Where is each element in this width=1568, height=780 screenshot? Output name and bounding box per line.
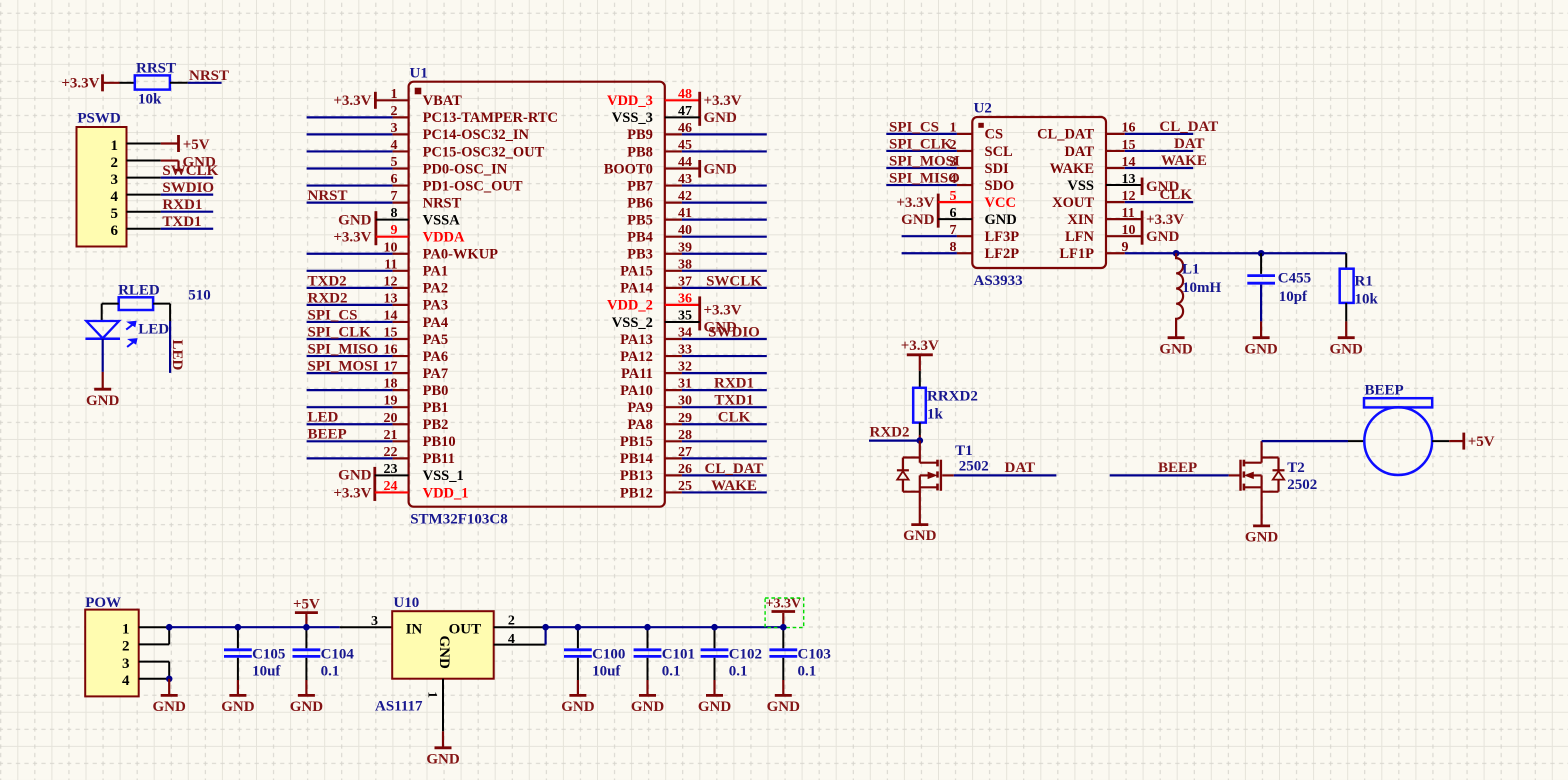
wire U1 pin 30 / net label TXD1: [665, 393, 767, 409]
svg-text:GND: GND: [1330, 341, 1364, 357]
ground (C102): [698, 680, 732, 715]
svg-text:4: 4: [111, 189, 119, 205]
svg-text:CLK: CLK: [718, 410, 751, 426]
wire U1 pin 21 / net label BEEP: [307, 427, 409, 443]
inductor L1: [1176, 253, 1221, 337]
power +5V (C104): [293, 597, 320, 628]
svg-text:SPI_MOSI: SPI_MOSI: [889, 153, 960, 169]
svg-text:LED: LED: [138, 321, 169, 337]
svg-text:RLED: RLED: [118, 282, 160, 298]
wire U1 pin 38: [665, 270, 767, 272]
ground (PSWD pin2): [161, 155, 216, 171]
svg-text:GND: GND: [1245, 530, 1279, 546]
resistor R1: [1340, 269, 1379, 322]
svg-text:DAT: DAT: [1174, 136, 1205, 152]
power +3.3V (U1 pin1 VBAT): [333, 92, 408, 109]
wire U2 pin 7: [902, 235, 973, 237]
node junction C104: [303, 624, 310, 631]
svg-text:SWDIO: SWDIO: [708, 324, 760, 340]
wire U1 pin 27: [665, 457, 767, 459]
wire U2 pin 2 / net label SPI_CLK: [886, 136, 972, 152]
svg-text:VSS_2: VSS_2: [612, 315, 653, 331]
wire RRST to NRST: [170, 82, 188, 84]
wire U2 pin 8: [902, 252, 973, 254]
svg-text:PC14-OSC32_IN: PC14-OSC32_IN: [423, 127, 530, 143]
svg-text:SPI_CS: SPI_CS: [308, 307, 358, 323]
wire net RXD2: [869, 424, 920, 440]
svg-text:10uf: 10uf: [252, 664, 281, 680]
buzzer BEEP: [1348, 382, 1449, 475]
svg-text:U1: U1: [410, 66, 428, 82]
wire LED cathode: [102, 339, 104, 372]
svg-text:IN: IN: [406, 622, 423, 638]
svg-text:POW: POW: [85, 595, 121, 611]
ground (C104): [290, 680, 324, 715]
node junction C105: [235, 624, 242, 631]
svg-text:10k: 10k: [138, 92, 162, 108]
svg-text:PA9: PA9: [627, 400, 653, 416]
ground (L1): [1159, 338, 1193, 358]
wire U1 pin 12 / net label TXD2: [307, 273, 409, 289]
svg-text:PA4: PA4: [423, 315, 449, 331]
svg-text:VBAT: VBAT: [423, 93, 463, 109]
svg-text:NRST: NRST: [308, 188, 348, 204]
svg-text:4: 4: [122, 673, 130, 689]
resistor RLED: [118, 282, 211, 310]
svg-text:2: 2: [111, 155, 119, 171]
svg-text:T1: T1: [955, 443, 973, 459]
node junction C100: [575, 624, 582, 631]
svg-text:GND: GND: [985, 212, 1017, 228]
wire U2 pin 14 / net label WAKE: [1106, 153, 1207, 169]
ground (U1 pin23 VSS_1): [338, 467, 408, 501]
svg-text:+5V: +5V: [183, 137, 210, 153]
wire U1 pin 45: [665, 150, 767, 152]
svg-text:GND: GND: [436, 636, 452, 670]
svg-text:GND: GND: [221, 699, 255, 715]
wire U1 pin 7 / net label NRST: [307, 188, 409, 204]
svg-text:+3.3V: +3.3V: [333, 93, 371, 109]
svg-text:PB3: PB3: [627, 247, 653, 263]
svg-text:PA6: PA6: [423, 349, 449, 365]
wire PSWD pin 2: [127, 160, 161, 162]
svg-text:10mH: 10mH: [1182, 280, 1221, 296]
svg-text:PB15: PB15: [620, 434, 653, 450]
op-amp U2 body (AS3933): [972, 100, 1106, 289]
svg-text:3: 3: [111, 172, 119, 188]
svg-text:C102: C102: [729, 646, 762, 662]
wire U1 pin 16 / net label SPI_MISO: [307, 341, 409, 357]
ground (U10): [426, 731, 460, 767]
svg-text:PSWD: PSWD: [77, 111, 121, 127]
svg-text:RXD1: RXD1: [162, 197, 202, 213]
svg-text:GND: GND: [704, 110, 738, 126]
svg-text:VDD_1: VDD_1: [423, 485, 469, 501]
svg-text:RXD2: RXD2: [308, 290, 348, 306]
svg-text:GND: GND: [698, 699, 732, 715]
ground (C455): [1244, 321, 1278, 357]
svg-text:PA15: PA15: [620, 264, 653, 280]
svg-text:C103: C103: [798, 646, 831, 662]
svg-text:SWCLK: SWCLK: [706, 273, 762, 289]
svg-text:NRST: NRST: [189, 68, 229, 84]
svg-text:U10: U10: [393, 595, 419, 611]
svg-text:0.1: 0.1: [798, 664, 817, 680]
power +3.3V (RRXD2): [901, 338, 939, 371]
wire U2 pin 4 / net label SPI_MISO: [886, 170, 972, 186]
svg-text:VCC: VCC: [985, 195, 1016, 211]
svg-text:+3.3V: +3.3V: [333, 485, 371, 501]
power +5V (PSWD pin1): [161, 135, 210, 153]
svg-text:VDDA: VDDA: [423, 230, 465, 246]
svg-text:GND: GND: [1159, 341, 1193, 357]
capacitor C102: [701, 627, 762, 680]
svg-text:PB6: PB6: [627, 195, 653, 211]
wire net BEEP (T2 gate): [1110, 460, 1240, 476]
svg-text:C101: C101: [662, 646, 695, 662]
wire POW pin3-4 tie: [168, 662, 170, 679]
svg-text:PA0-WKUP: PA0-WKUP: [423, 247, 499, 263]
svg-text:PA1: PA1: [423, 264, 449, 280]
wire U1 pin 40: [665, 236, 767, 238]
svg-text:GND: GND: [631, 699, 665, 715]
svg-text:+5V: +5V: [293, 597, 320, 613]
wire U1 pin 5: [307, 167, 409, 169]
svg-text:L1: L1: [1182, 262, 1200, 278]
svg-text:SWCLK: SWCLK: [162, 163, 218, 179]
svg-text:2502: 2502: [1287, 477, 1317, 493]
wire U2 pin 1 / net label SPI_CS: [886, 119, 972, 135]
svg-text:OUT: OUT: [449, 622, 482, 638]
wire U10 OUT pins: [494, 627, 546, 644]
svg-text:0.1: 0.1: [729, 664, 748, 680]
wire PSWD pin 4: [127, 194, 161, 196]
wire U1 pin 33: [665, 355, 767, 357]
svg-text:LF2P: LF2P: [985, 246, 1020, 262]
node junction POW rail: [166, 624, 173, 631]
node junction C103: [780, 624, 787, 631]
ground (T1 source): [903, 496, 937, 544]
wire U1 pin 11: [307, 270, 409, 272]
svg-text:+5V: +5V: [1468, 434, 1495, 450]
svg-text:GND: GND: [901, 212, 935, 228]
svg-text:3: 3: [122, 656, 130, 672]
wire U1 pin 14 / net label SPI_CS: [307, 307, 409, 323]
U1 pin names (right): [604, 93, 653, 501]
svg-text:PB9: PB9: [627, 127, 653, 143]
svg-text:CL_DAT: CL_DAT: [705, 461, 764, 477]
wire U1 pin 19: [307, 406, 409, 408]
svg-text:+3.3V: +3.3V: [333, 230, 371, 246]
svg-text:+3.3V: +3.3V: [896, 195, 934, 211]
svg-text:VSS_1: VSS_1: [423, 468, 464, 484]
svg-text:PC15-OSC32_OUT: PC15-OSC32_OUT: [423, 144, 545, 160]
svg-text:WAKE: WAKE: [711, 478, 757, 494]
svg-text:PB14: PB14: [620, 451, 653, 467]
svg-text:+3.3V: +3.3V: [704, 303, 742, 319]
svg-text:LF1P: LF1P: [1059, 246, 1094, 262]
ground (R1): [1330, 321, 1364, 357]
svg-text:TXD2: TXD2: [308, 273, 347, 289]
wire U1 pin 39: [665, 253, 767, 255]
svg-text:PA5: PA5: [423, 332, 449, 348]
svg-text:VDD_2: VDD_2: [607, 298, 653, 314]
svg-text:LF3P: LF3P: [985, 229, 1020, 245]
svg-text:SDI: SDI: [985, 161, 1010, 177]
svg-text:BEEP: BEEP: [308, 427, 347, 443]
svg-text:WAKE: WAKE: [1161, 153, 1207, 169]
wire U1 pin 28: [665, 440, 767, 442]
wire U2 pin 15 / net label DAT: [1106, 136, 1205, 152]
svg-text:+3.3V: +3.3V: [766, 597, 802, 612]
ground (U1 pin44 BOOT0): [665, 160, 737, 178]
svg-text:PB7: PB7: [627, 178, 653, 194]
op-amp U1 body (STM32F103C8): [409, 66, 665, 528]
svg-text:XOUT: XOUT: [1052, 195, 1094, 211]
wire U1 pin 32: [665, 372, 767, 374]
svg-text:1: 1: [122, 622, 130, 638]
power +5V (buzzer): [1449, 433, 1495, 451]
svg-text:DAT: DAT: [1064, 144, 1094, 160]
wire POW pin 2: [139, 643, 170, 645]
resistor RRXD2: [913, 371, 978, 441]
svg-text:10pf: 10pf: [1279, 289, 1308, 305]
svg-text:GND: GND: [903, 528, 937, 544]
svg-text:1: 1: [426, 692, 441, 699]
ground (U2 pin6): [901, 212, 972, 228]
svg-text:PB12: PB12: [620, 485, 653, 501]
svg-text:PD0-OSC_IN: PD0-OSC_IN: [423, 161, 508, 177]
wire U10 GND pin: [442, 679, 444, 732]
svg-text:10k: 10k: [1355, 291, 1379, 307]
svg-text:PA11: PA11: [621, 366, 653, 382]
capacitor C101: [634, 627, 695, 680]
ground (T2 source): [1245, 496, 1279, 546]
svg-text:TXD1: TXD1: [714, 393, 753, 409]
svg-text:PA14: PA14: [620, 281, 653, 297]
svg-text:2502: 2502: [959, 458, 989, 474]
svg-text:PA12: PA12: [620, 349, 653, 365]
svg-text:+3.3V: +3.3V: [1146, 212, 1184, 228]
svg-text:PB10: PB10: [423, 434, 456, 450]
wire U1 pin 22: [307, 457, 409, 459]
svg-text:6: 6: [111, 223, 119, 239]
svg-text:C100: C100: [592, 646, 625, 662]
svg-text:GND: GND: [1146, 229, 1180, 245]
svg-text:VSSA: VSSA: [423, 212, 461, 228]
svg-text:GND: GND: [426, 751, 460, 767]
svg-text:LFN: LFN: [1065, 229, 1095, 245]
svg-text:510: 510: [188, 288, 211, 304]
svg-text:GND: GND: [338, 467, 372, 483]
svg-text:SPI_MISO: SPI_MISO: [308, 341, 379, 357]
wire T2 drain to buzzer: [1262, 440, 1348, 442]
ground (U2 pin10 LFN): [1106, 229, 1180, 245]
svg-text:0.1: 0.1: [321, 664, 340, 680]
wire POW pin 3: [139, 661, 170, 663]
ground (U1 pin47 VSS_3): [665, 110, 737, 126]
power +3.3V (U1 pin24 VDD_1): [333, 485, 408, 501]
wire U1 pin 31 / net label RXD1: [665, 376, 767, 392]
svg-text:SCL: SCL: [985, 144, 1014, 160]
node junction C102: [711, 624, 718, 631]
U1 pin numbers (left): [384, 87, 398, 494]
svg-text:C455: C455: [1278, 271, 1311, 287]
power +3.3V (U1 pin36 VDD_2): [665, 296, 742, 330]
svg-text:CL_DAT: CL_DAT: [1159, 119, 1218, 135]
wire PSWD pin 6: [127, 228, 161, 230]
svg-text:PA13: PA13: [620, 332, 653, 348]
wire POW pin 1: [139, 626, 170, 628]
capacitor C100: [564, 627, 625, 680]
svg-text:+3.3V: +3.3V: [901, 338, 939, 354]
svg-text:PB5: PB5: [627, 212, 653, 228]
svg-text:GND: GND: [561, 699, 595, 715]
power +3.3V (RRST): [61, 74, 102, 91]
svg-text:SDO: SDO: [985, 178, 1015, 194]
wire U1 pin 46: [665, 133, 767, 135]
svg-text:GND: GND: [338, 212, 372, 228]
svg-text:GND: GND: [704, 162, 738, 178]
svg-text:PA2: PA2: [423, 281, 449, 297]
wire/net label SWCLK: [161, 163, 219, 179]
wire U1 pin 3: [307, 133, 409, 135]
svg-text:LED: LED: [169, 340, 185, 371]
transistor T2 (2502): [1241, 441, 1318, 496]
wire U1 pin 43: [665, 184, 767, 186]
wire +3.3V to RRST: [103, 82, 120, 84]
wire U2 pin 12 / net label CLK: [1106, 187, 1193, 203]
node junction RXD2/T1: [917, 437, 924, 444]
svg-text:DAT: DAT: [1005, 460, 1036, 476]
svg-text:BEEP: BEEP: [1158, 460, 1197, 476]
svg-text:3: 3: [371, 614, 378, 629]
svg-text:SPI_MISO: SPI_MISO: [889, 170, 960, 186]
wire U1 pin 29 / net label CLK: [665, 410, 767, 426]
U2 pin numbers: [950, 121, 1136, 255]
wire U1 pin 41: [665, 219, 767, 221]
svg-text:SPI_MOSI: SPI_MOSI: [308, 359, 379, 375]
power +3.3V (U2 pin5 VCC): [896, 194, 972, 228]
wire/net label RXD1: [161, 197, 213, 213]
wire U2 pin 16 / net label CL_DAT: [1106, 119, 1218, 135]
wire PSWD pin 1: [127, 143, 161, 145]
wire U1 pin 20 / net label LED: [307, 410, 409, 426]
svg-text:SPI_CS: SPI_CS: [889, 119, 939, 135]
wire U1 pin 10: [307, 253, 409, 255]
svg-text:PB2: PB2: [423, 417, 449, 433]
svg-text:SWDIO: SWDIO: [162, 180, 214, 196]
svg-text:CL_DAT: CL_DAT: [1037, 127, 1094, 143]
ground (U1 pin8 VSSA): [338, 211, 408, 245]
wire U1 pin 42: [665, 202, 767, 204]
svg-text:WAKE: WAKE: [1050, 161, 1094, 177]
wire U1 pin 17 / net label SPI_MOSI: [307, 359, 409, 375]
wire/net label SWDIO: [161, 180, 214, 196]
svg-text:1k: 1k: [927, 407, 944, 423]
node junction at L1: [1173, 250, 1180, 257]
svg-text:PB11: PB11: [423, 451, 455, 467]
svg-text:+3.3V: +3.3V: [61, 76, 99, 92]
wire POW pin1-2 tie: [168, 627, 170, 644]
svg-text:0.1: 0.1: [662, 664, 681, 680]
svg-text:PC13-TAMPER-RTC: PC13-TAMPER-RTC: [423, 110, 558, 126]
wire/net label TXD1: [161, 214, 213, 230]
svg-text:PB0: PB0: [423, 383, 449, 399]
wire +3.3V rail: [546, 626, 784, 628]
svg-text:NRST: NRST: [423, 195, 462, 211]
svg-text:U2: U2: [974, 100, 992, 116]
wire U2 pin 3 / net label SPI_MOSI: [886, 153, 972, 169]
capacitor C104: [293, 627, 355, 680]
svg-text:VSS_3: VSS_3: [612, 110, 653, 126]
power +3.3V (U2 pin11 XIN): [1106, 211, 1184, 245]
svg-text:PA10: PA10: [620, 383, 653, 399]
node junction U10 OUT: [542, 624, 549, 631]
wire net DAT (T1 gate): [942, 460, 1056, 476]
svg-text:PB8: PB8: [627, 144, 653, 160]
svg-text:10uf: 10uf: [592, 664, 621, 680]
power +3.3V (U1 pin9 VDDA): [333, 230, 408, 246]
ground (C103): [767, 680, 801, 715]
svg-text:BOOT0: BOOT0: [604, 161, 653, 177]
svg-text:AS1117: AS1117: [375, 699, 423, 715]
svg-text:GND: GND: [86, 393, 120, 409]
svg-text:2: 2: [122, 639, 130, 655]
transistor T1 (2502): [897, 441, 989, 496]
svg-text:PA3: PA3: [423, 298, 449, 314]
svg-text:GND: GND: [290, 699, 324, 715]
wire +5V rail POW to U10: [169, 626, 392, 628]
node junction at C455: [1258, 250, 1265, 257]
svg-text:VDD_3: VDD_3: [607, 93, 653, 109]
svg-text:AS3933: AS3933: [974, 273, 1023, 289]
ground (POW): [153, 679, 187, 715]
svg-text:RXD1: RXD1: [714, 376, 754, 392]
svg-text:PB4: PB4: [627, 230, 653, 246]
wire RLED left to LED: [102, 304, 119, 321]
wire POW pin 4: [139, 678, 170, 680]
U2 pin names: [985, 127, 1095, 262]
svg-text:C104: C104: [321, 646, 355, 662]
svg-text:PA7: PA7: [423, 366, 449, 382]
connector POW: [85, 595, 139, 697]
svg-text:SPI_CLK: SPI_CLK: [889, 136, 953, 152]
U1 pin names (left): [423, 93, 558, 501]
wire RLED right / net LED: [153, 304, 170, 373]
svg-text:SPI_CLK: SPI_CLK: [308, 324, 372, 340]
capacitor C455: [1247, 253, 1311, 321]
svg-text:RRST: RRST: [136, 61, 176, 77]
svg-text:C105: C105: [252, 646, 285, 662]
svg-text:RXD2: RXD2: [870, 424, 910, 440]
capacitor C103: [769, 627, 830, 680]
ground (C100): [561, 680, 595, 715]
wire U1 pin 18: [307, 389, 409, 391]
wire U1 pin 15 / net label SPI_CLK: [307, 324, 409, 340]
svg-text:PD1-OSC_OUT: PD1-OSC_OUT: [423, 178, 523, 194]
svg-text:CS: CS: [985, 127, 1004, 143]
wire PSWD pin 3: [127, 177, 161, 179]
ground (LED): [86, 372, 120, 409]
wire U1 pin 34 / net label SWDIO: [665, 324, 767, 340]
wire U1 pin 25 / net label WAKE: [665, 478, 767, 494]
connector PSWD: [77, 111, 127, 247]
wire U1 pin 37 / net label SWCLK: [665, 273, 767, 289]
svg-text:GND: GND: [153, 699, 187, 715]
svg-text:GND: GND: [1244, 341, 1278, 357]
svg-text:BEEP: BEEP: [1365, 382, 1404, 398]
